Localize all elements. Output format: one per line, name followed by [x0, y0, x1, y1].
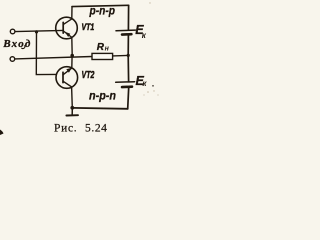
- svg-text:.: .: [152, 79, 155, 89]
- svg-text:Вход: Вход: [2, 38, 31, 50]
- svg-text:VT2: VT2: [82, 69, 95, 81]
- svg-text:n-p-n: n-p-n: [89, 90, 116, 103]
- svg-text:VT1: VT1: [82, 22, 95, 32]
- svg-text:p-n-p: p-n-p: [89, 3, 116, 17]
- svg-text:5.24: 5.24: [85, 123, 108, 135]
- svg-text:Рис.: Рис.: [54, 123, 77, 135]
- svg-text:R: R: [97, 42, 105, 53]
